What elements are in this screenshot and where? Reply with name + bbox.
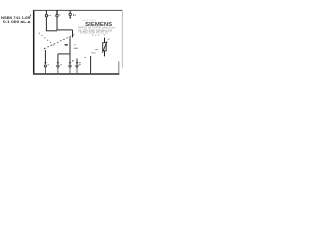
svg-text:0.1 000 aL-a: 0.1 000 aL-a bbox=[3, 20, 31, 24]
svg-text:vvv: vvv bbox=[92, 33, 100, 37]
svg-text:solid state: solid state bbox=[82, 18, 97, 22]
